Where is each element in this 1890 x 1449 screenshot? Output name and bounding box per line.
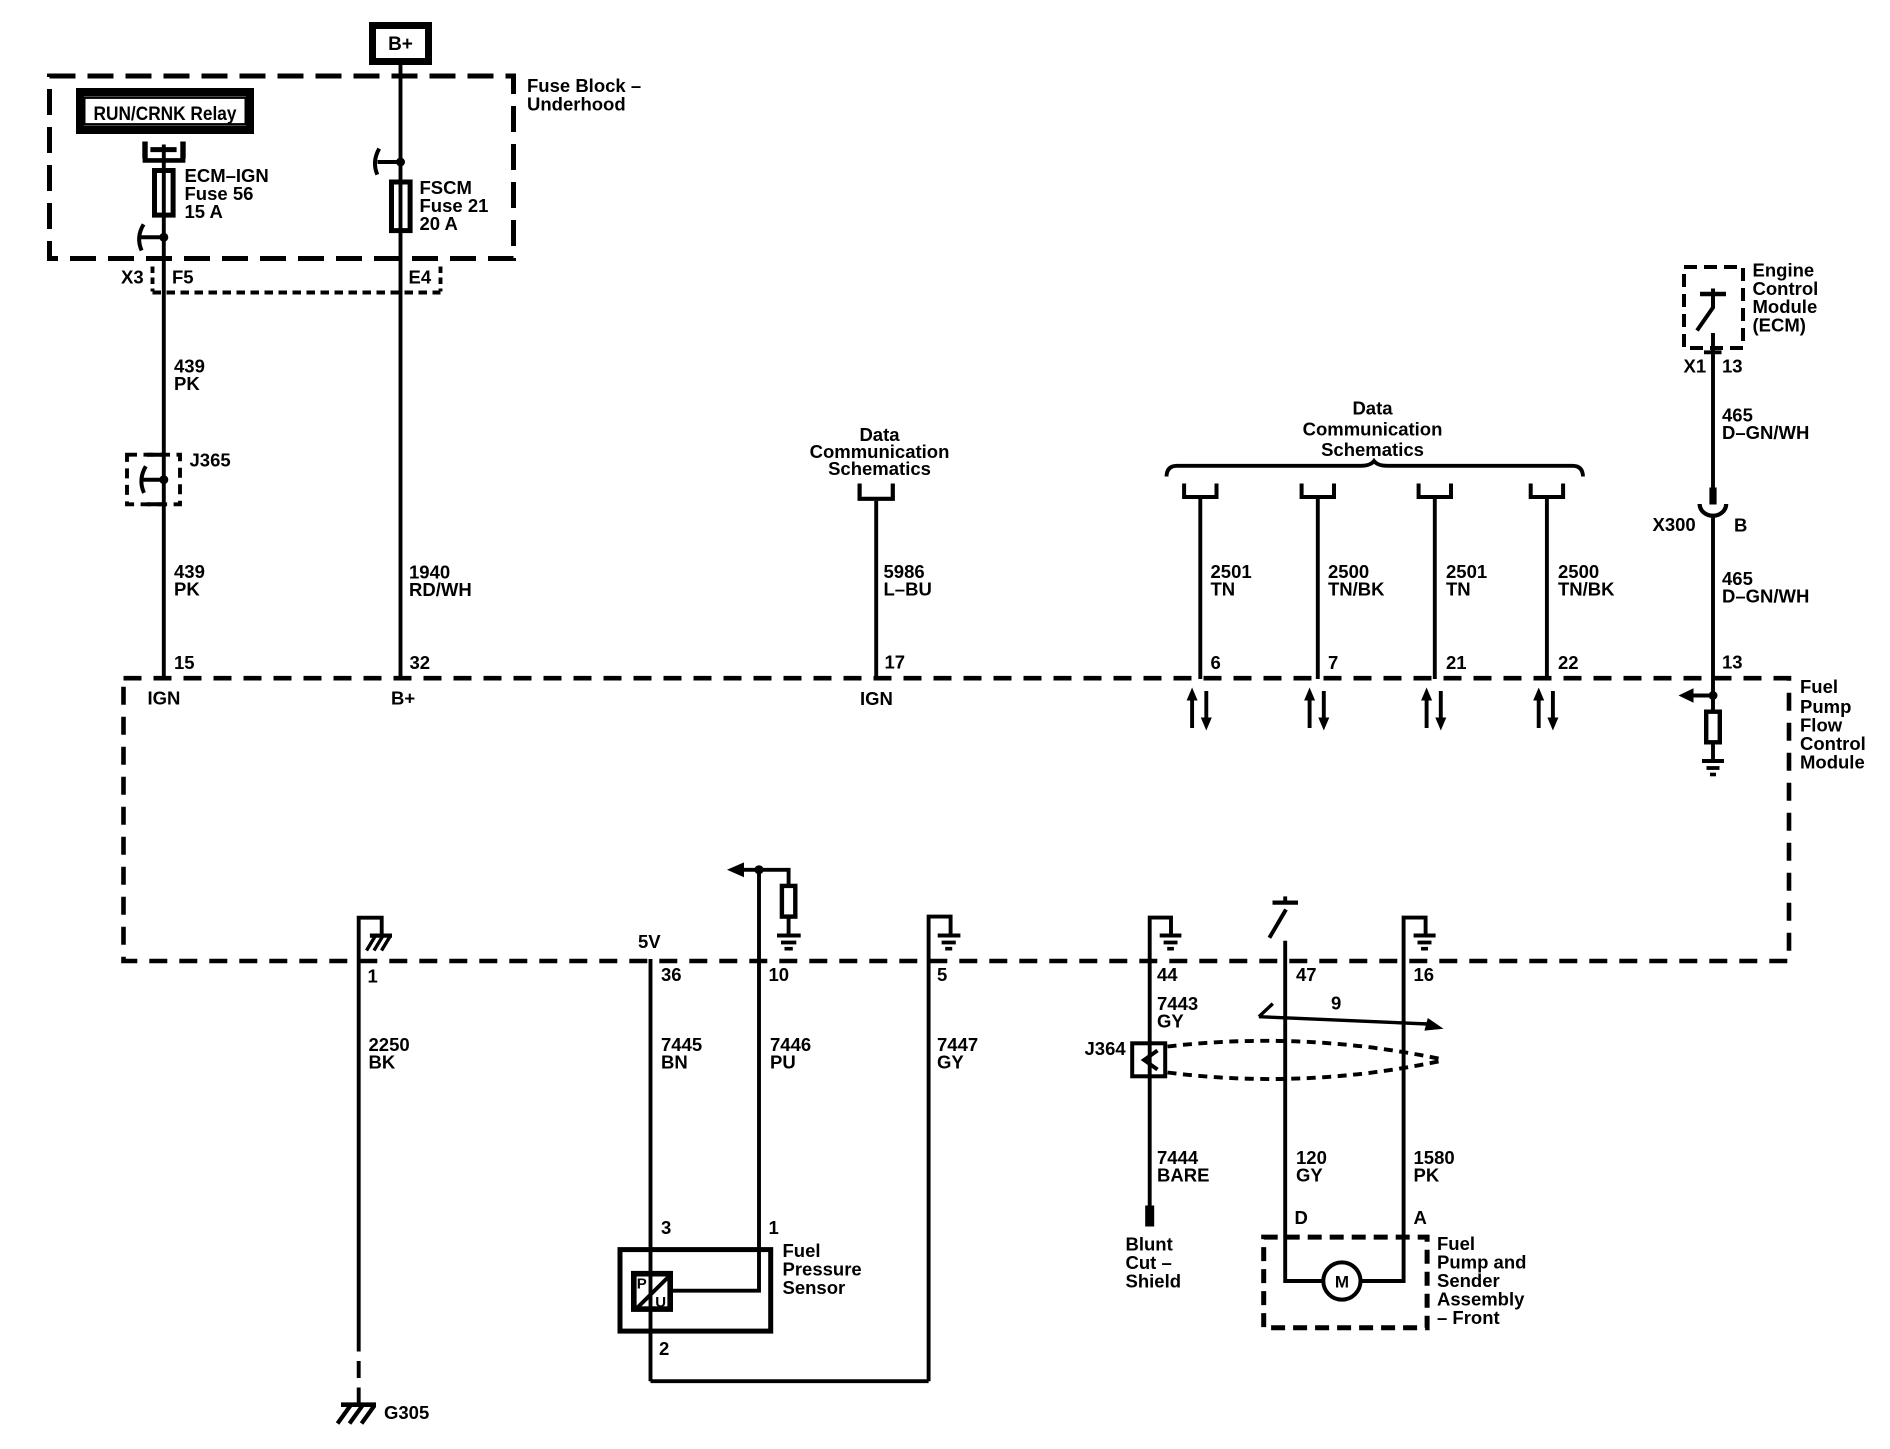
splice J365 terminal symbol	[141, 455, 168, 505]
svg-text:U: U	[655, 1294, 666, 1311]
wire 1940 RD/WH (B+ to module pin 32)	[399, 65, 403, 679]
svg-text:X1: X1	[1684, 356, 1707, 377]
callout 9 pointer arrow	[1259, 1004, 1444, 1031]
svg-text:44: 44	[1157, 964, 1178, 985]
wire label 1940 RD/WH	[409, 562, 472, 601]
svg-text:X300: X300	[1653, 514, 1696, 535]
wire label 7446 PU	[770, 1034, 811, 1073]
svg-text:B: B	[1734, 515, 1747, 536]
brace over data link connectors	[1167, 461, 1584, 477]
internal reference branch at pin 10	[727, 862, 789, 959]
svg-text:BARE: BARE	[1157, 1165, 1209, 1186]
splice J364 box	[1132, 1043, 1165, 1076]
chassis ground G305	[338, 1405, 377, 1424]
svg-text:L–BU: L–BU	[884, 579, 932, 600]
svg-text:Shield: Shield	[1126, 1271, 1182, 1292]
svg-text:J365: J365	[190, 450, 231, 471]
svg-text:RUN/CRNK Relay: RUN/CRNK Relay	[94, 103, 237, 125]
svg-text:D–GN/WH: D–GN/WH	[1722, 586, 1809, 607]
svg-text:TN: TN	[1446, 579, 1471, 600]
svg-text:Schematics: Schematics	[828, 458, 931, 479]
svg-text:IGN: IGN	[860, 688, 893, 709]
svg-text:J364: J364	[1085, 1038, 1127, 1059]
wire label 439 PK (upper)	[174, 356, 205, 395]
wire label 7444 BARE	[1157, 1147, 1209, 1186]
wire label 5986 L-BU	[884, 561, 932, 600]
connector terminal above fuse 21	[375, 149, 405, 175]
off-page connector bracket (data link 3)	[1419, 484, 1451, 498]
svg-text:Module: Module	[1800, 751, 1865, 772]
svg-text:16: 16	[1414, 964, 1435, 985]
svg-text:RD/WH: RD/WH	[409, 579, 472, 600]
wire sensor pin 2 return	[651, 1379, 929, 1383]
svg-text:5V: 5V	[638, 931, 661, 952]
wire label 465 D-GN/WH (upper)	[1722, 405, 1809, 444]
off-page connector bracket (data link 4)	[1531, 484, 1563, 498]
svg-text:A: A	[1414, 1207, 1427, 1228]
svg-text:IGN: IGN	[148, 688, 181, 709]
svg-text:Schematics: Schematics	[1321, 439, 1424, 460]
svg-text:15 A: 15 A	[185, 201, 223, 222]
svg-text:9: 9	[1331, 993, 1341, 1014]
wire label 2250 BK	[369, 1034, 410, 1073]
svg-text:M: M	[1335, 1273, 1349, 1292]
svg-text:21: 21	[1446, 652, 1467, 673]
svg-text:E4: E4	[409, 267, 432, 288]
connector dashed line X3-E4	[153, 291, 441, 295]
splice J364 terminal symbol	[1144, 1051, 1158, 1070]
svg-text:3: 3	[661, 1217, 671, 1238]
motor M fuel pump	[1323, 1262, 1360, 1299]
wire label 2501 TN	[1446, 561, 1487, 600]
svg-text:PK: PK	[174, 579, 200, 600]
wire 7447 GY (pin 5 to sensor pin 2)	[927, 959, 931, 1381]
relay contact symbol	[143, 142, 186, 161]
serial data arrows at pin 21	[1421, 688, 1446, 731]
earth ground (ECM driver load)	[1702, 761, 1724, 775]
svg-text:F5: F5	[172, 267, 194, 288]
wire label 2501 TN	[1211, 561, 1252, 600]
svg-text:BK: BK	[369, 1052, 396, 1073]
internal chassis ground at pin 1	[359, 918, 392, 959]
svg-text:BN: BN	[661, 1052, 688, 1073]
splice J365 dashed box	[127, 455, 180, 505]
connector tick X1	[1704, 350, 1722, 354]
svg-text:Fuel: Fuel	[1800, 676, 1838, 697]
label Fuel Pressure Sensor	[783, 1240, 862, 1298]
module Engine Control Module (ECM) dashed box	[1684, 267, 1743, 348]
shield oval around twisted pair	[1168, 1041, 1444, 1079]
svg-text:10: 10	[769, 964, 790, 985]
internal signal arrow at pin 13	[1679, 688, 1718, 702]
svg-text:GY: GY	[937, 1052, 964, 1073]
serial data arrows at pin 6	[1187, 688, 1212, 731]
module Fuel Pump Flow Control Module dashed box	[124, 678, 1790, 961]
svg-text:36: 36	[661, 964, 682, 985]
svg-text:17: 17	[885, 652, 906, 673]
wire label 1580 PK	[1414, 1147, 1455, 1186]
internal resistor at pin 13	[1706, 712, 1720, 743]
wire label 465 D-GN/WH (lower)	[1722, 568, 1809, 607]
value label ECM-IGN Fuse 56 15 A	[185, 165, 269, 222]
svg-text:Communication: Communication	[1303, 418, 1443, 439]
assembly Fuel Pump and Sender Assembly - Front dashed box	[1264, 1237, 1427, 1328]
connector code E4	[409, 267, 441, 292]
wire resistor to ground	[787, 919, 791, 934]
wire 5986 L-BU to module pin 17	[874, 501, 878, 679]
value label FSCM Fuse 21 20 A	[420, 177, 489, 234]
svg-text:20 A: 20 A	[420, 213, 458, 234]
serial data arrows at pin 7	[1304, 688, 1329, 731]
svg-text:PK: PK	[174, 373, 200, 394]
wire label 439 PK (lower)	[174, 561, 205, 600]
internal resistor at pin 10	[782, 886, 795, 917]
svg-text:PU: PU	[770, 1052, 796, 1073]
wire label 7443 GY	[1157, 993, 1198, 1032]
svg-text:Underhood: Underhood	[527, 94, 626, 115]
svg-text:– Front: – Front	[1437, 1307, 1500, 1328]
wire 2501 TN to pin 6	[1198, 499, 1202, 679]
connector X300 male terminal	[1709, 488, 1716, 505]
wire 465 D-GN/WH (ECM pin 13 to X300)	[1711, 333, 1715, 488]
label Data Communication Schematics (middle)	[810, 424, 950, 479]
svg-text:13: 13	[1722, 356, 1743, 377]
wire 7445 BN (pin 36 to sensor pin 3/2)	[649, 959, 653, 1381]
connector terminal below fuse 56	[139, 224, 168, 250]
label Fuel Pump Flow Control Module	[1800, 676, 1866, 772]
wire 1580 PK (pin 16 to pump A)	[1361, 959, 1404, 1281]
wire 7446 PU (pin 10 to sensor pin 1)	[673, 959, 759, 1291]
svg-text:Sensor: Sensor	[783, 1277, 846, 1298]
label X300 / B	[1653, 514, 1748, 536]
svg-text:G305: G305	[384, 1402, 429, 1423]
svg-text:22: 22	[1558, 652, 1579, 673]
svg-text:TN/BK: TN/BK	[1328, 579, 1385, 600]
internal ground at pin 16	[1404, 918, 1426, 959]
label Data Communication Schematics (right)	[1303, 398, 1443, 461]
earth ground (pin 16)	[1414, 936, 1436, 949]
svg-text:B+: B+	[391, 688, 415, 709]
svg-text:TN/BK: TN/BK	[1558, 579, 1615, 600]
svg-text:D: D	[1295, 1207, 1308, 1228]
svg-text:47: 47	[1296, 964, 1317, 985]
earth ground (pin 44 shield)	[1160, 936, 1182, 949]
wire label 7447 GY	[937, 1034, 978, 1073]
svg-text:TN: TN	[1211, 579, 1236, 600]
svg-text:(ECM): (ECM)	[1753, 314, 1806, 335]
connector code X3 | F5	[121, 267, 194, 292]
off-page connector bracket (data link 1)	[1184, 484, 1216, 498]
svg-text:1: 1	[368, 966, 378, 987]
wire 439 PK branch (relay to module pin 15)	[162, 145, 166, 680]
label Fuse Block - Underhood	[527, 75, 641, 115]
fuse F56 ECM-IGN 15A	[155, 171, 174, 216]
wire 465 D-GN/WH (X300 to module pin 13)	[1711, 516, 1715, 710]
off-page connector bracket (data link 2)	[1302, 484, 1334, 498]
svg-text:B+: B+	[388, 34, 413, 55]
serial data arrows at pin 22	[1533, 688, 1558, 731]
wire 2500 TN/BK to pin 7	[1316, 499, 1320, 679]
blunt cut terminal bar	[1145, 1206, 1154, 1227]
svg-text:5: 5	[937, 964, 947, 985]
wire 2250 BK	[357, 959, 361, 1335]
wire 7443 GY / 7444 BARE (pin 44 shield drain)	[1148, 959, 1152, 1206]
svg-text:Data: Data	[1352, 398, 1393, 419]
internal ground at pin 5	[929, 917, 951, 959]
earth ground (pin 5)	[938, 936, 961, 949]
svg-text:X3: X3	[121, 267, 144, 288]
relay RUN/CRNK Relay	[80, 92, 250, 130]
internal ground at pin 44	[1150, 918, 1171, 959]
wire 120 GY (pin 47 to pump D)	[1285, 941, 1323, 1281]
svg-text:P: P	[637, 1276, 647, 1293]
wire resistor to ground	[1711, 745, 1715, 760]
connector code X1 | 13	[1684, 356, 1743, 377]
svg-text:13: 13	[1722, 652, 1743, 673]
svg-text:7: 7	[1328, 652, 1338, 673]
svg-text:1: 1	[769, 1217, 779, 1238]
svg-text:PK: PK	[1414, 1165, 1440, 1186]
internal driver switch at pin 47	[1269, 896, 1298, 937]
off-page connector bracket (middle data link)	[860, 484, 893, 499]
wire label 2500 TN/BK	[1558, 561, 1615, 600]
wire label 2500 TN/BK	[1328, 561, 1385, 600]
svg-text:6: 6	[1211, 652, 1221, 673]
svg-text:GY: GY	[1296, 1165, 1323, 1186]
label Fuel Pump and Sender Assembly - Front	[1437, 1233, 1526, 1328]
power node B+	[373, 26, 429, 62]
earth ground (pin 10 pull-up)	[777, 936, 801, 949]
fuse F21 FSCM 20A	[392, 182, 411, 231]
label Blunt Cut - Shield	[1126, 1234, 1182, 1292]
sensor Fuel Pressure Sensor box	[620, 1250, 771, 1332]
svg-text:2: 2	[659, 1338, 669, 1359]
svg-text:15: 15	[174, 652, 195, 673]
svg-text:32: 32	[410, 652, 431, 673]
wire 2500 TN/BK to pin 22	[1545, 499, 1549, 679]
wire 2250 BK dashed tail	[357, 1335, 361, 1403]
svg-text:D–GN/WH: D–GN/WH	[1722, 422, 1809, 443]
wire 2501 TN to pin 21	[1433, 499, 1437, 679]
fuse block - underhood dashed box	[50, 76, 514, 259]
sensor P/U transducer symbol	[634, 1274, 670, 1311]
svg-text:GY: GY	[1157, 1011, 1184, 1032]
connector X300 female cup	[1700, 504, 1727, 516]
label Engine Control Module (ECM)	[1753, 260, 1819, 336]
wire label 7445 BN	[661, 1034, 702, 1073]
ECM driver switch symbol	[1697, 289, 1726, 331]
wire label 120 GY	[1296, 1147, 1327, 1186]
